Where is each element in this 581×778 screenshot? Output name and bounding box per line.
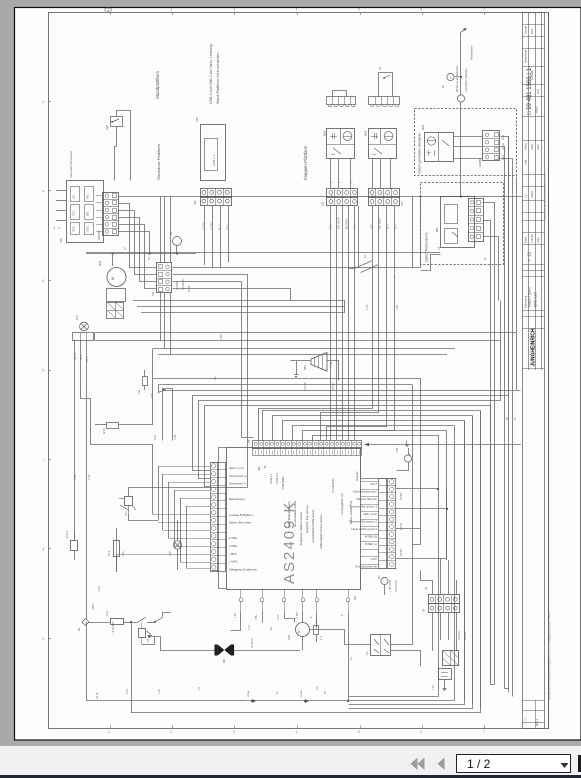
svg-text:X6: X6 <box>422 608 426 612</box>
switch S20 <box>111 117 123 127</box>
svg-text:4: 4 <box>43 190 45 194</box>
svg-text:Irrtumsvorb. alle Rechte vo: Irrtumsvorb. alle Rechte vorbehalten © J… <box>544 173 547 220</box>
svg-text:Hauptantrieb (GND) sensor-: Hauptantrieb (GND) sensor- <box>311 509 315 543</box>
svg-text:A: A <box>449 77 453 79</box>
relay K1 contacts <box>371 635 391 656</box>
svg-text:4B1: 4B1 <box>303 365 307 370</box>
svg-text:3: 3 <box>233 730 235 734</box>
svg-text:WH 16/BN: WH 16/BN <box>379 217 382 229</box>
wires from X30 cascade <box>119 196 231 198</box>
svg-text:C51: C51 <box>72 211 76 216</box>
ECU left pin block X1 <box>211 463 219 572</box>
svg-text:9M1: 9M1 <box>421 124 425 130</box>
svg-text:1FB 3: 1FB 3 <box>66 531 69 538</box>
svg-text:CAN-Bus / Optionen: CAN-Bus / Optionen <box>464 68 468 92</box>
wire node B down <box>460 103 462 197</box>
valve PTB 2Y1 <box>125 497 133 506</box>
svg-text:5: 5 <box>43 279 45 283</box>
motor 6M1 <box>107 268 126 287</box>
svg-text:8B1: 8B1 <box>435 227 439 232</box>
svg-text:2 BU: 2 BU <box>255 614 258 620</box>
svg-text:A51: A51 <box>86 194 90 199</box>
wire X6 top <box>432 580 434 595</box>
svg-text:Blatt: Blatt <box>530 29 534 34</box>
lamp 2W <box>173 541 181 549</box>
svg-text:Datum: Datum <box>525 143 528 150</box>
svg-text:0.5 GY: 0.5 GY <box>400 522 403 530</box>
fan relay block 9M3 <box>369 129 397 159</box>
terminal strip X35 <box>201 189 232 198</box>
svg-text:F1.0: F1.0 <box>106 610 109 616</box>
svg-text:0.5 RD: 0.5 RD <box>211 222 214 230</box>
svg-text:0.5 GN: 0.5 GN <box>304 382 307 390</box>
svg-text:7615: 7615 <box>86 226 90 232</box>
svg-text:8: 8 <box>43 548 45 552</box>
rectifier DR black <box>215 645 218 656</box>
svg-text:Drehz. antrieb. Poti: Drehz. antrieb. Poti <box>349 501 353 524</box>
svg-text:F1.3: F1.3 <box>107 550 111 556</box>
svg-text:50a: 50a <box>354 595 357 600</box>
svg-text:Fahrtrichtung vorw.: Fahrtrichtung vorw. <box>353 490 377 494</box>
connector X16 4-pin <box>483 131 500 161</box>
svg-text:4: 4 <box>296 8 298 12</box>
svg-text:6: 6 <box>421 730 423 734</box>
svg-text:MP: MP <box>378 575 381 579</box>
svg-text:16 sw: 16 sw <box>300 690 303 697</box>
svg-text:- MFG: - MFG <box>229 552 237 556</box>
svg-text:Totmann Sitz-sensor 1: Totmann Sitz-sensor 1 <box>349 505 377 509</box>
svg-text:KB 0.5: KB 0.5 <box>74 352 77 360</box>
svg-text:Name: Name <box>531 143 534 150</box>
svg-text:Weiter zu Rückleuchte: Weiter zu Rückleuchte <box>455 66 459 92</box>
svg-text:Option gemeldete Geblaese: Option gemeldete Geblaese <box>418 133 422 174</box>
svg-text:GN 1: GN 1 <box>371 223 374 229</box>
svg-text:S1: S1 <box>146 638 150 642</box>
svg-text:B2: B2 <box>169 231 173 235</box>
wires bottom pins <box>231 611 241 631</box>
svg-text:2 W: 2 W <box>168 551 172 556</box>
svg-text:Option Rückenlehne: Option Rückenlehne <box>425 232 429 262</box>
svg-text:M'SEN_A: M'SEN_A <box>365 542 377 546</box>
wires relay K1 <box>391 545 413 645</box>
svg-text:Steckdose Plattform: Steckdose Plattform <box>156 144 161 180</box>
fuse F1.3 <box>114 541 120 557</box>
svg-text:M'SEN_B: M'SEN_B <box>365 535 377 539</box>
svg-text:X13: X13 <box>400 201 404 206</box>
svg-text:B51: B51 <box>86 211 90 216</box>
svg-text:Hauptantr. Imp. sensor+: Hauptantr. Imp. sensor+ <box>305 504 309 533</box>
svg-text:S20: S20 <box>105 125 109 130</box>
svg-text:X11: X11 <box>321 201 325 206</box>
svg-text:10A: 10A <box>121 551 125 556</box>
svg-text:+PGT: +PGT <box>370 482 378 486</box>
svg-text:+15V: +15V <box>370 557 377 561</box>
terminal strip 3-cell <box>73 333 94 341</box>
svg-text:rt 16/BK: rt 16/BK <box>176 281 179 290</box>
svg-text:Anzeige B (Batt)ron: Anzeige B (Batt)ron <box>229 513 254 517</box>
wire bus y300-320 <box>133 300 345 302</box>
wire main bus y196 <box>231 196 327 198</box>
svg-text:5: 5 <box>358 730 360 734</box>
svg-text:GY 1: GY 1 <box>86 356 89 362</box>
wires X41 down <box>160 293 162 341</box>
svg-text:Ausdruck nur zur Information!: Ausdruck nur zur Information! Erzeugt am… <box>549 612 552 700</box>
svg-text:Klappen-Plattform: Klappen-Plattform <box>303 145 308 180</box>
wire stair bus above IC <box>163 391 521 441</box>
indicator B2 <box>173 237 182 246</box>
wires into left pins <box>158 466 210 468</box>
svg-text:Beleuchtung: Beleuchtung <box>229 497 245 501</box>
svg-text:A30: A30 <box>59 238 63 243</box>
svg-text:Setzer (Dis) swert: Setzer (Dis) swert <box>229 521 251 525</box>
svg-text:Scheinwerf (-): Scheinwerf (-) <box>229 482 246 486</box>
svg-text:1 BK: 1 BK <box>74 474 77 480</box>
brake resistor R1 <box>439 669 452 680</box>
svg-text:2:16: 2:16 <box>126 689 129 694</box>
nested corners bottom right <box>349 700 455 702</box>
svg-text:Gabel-Tg/von: Gabel-Tg/von <box>528 287 532 307</box>
option box gemeldete Geblaese <box>415 109 517 176</box>
svg-text:1 F1: 1 F1 <box>431 684 435 690</box>
horn 4B1 <box>311 353 327 372</box>
svg-text:Potentiometer fer: Potentiometer fer <box>356 565 378 569</box>
svg-text:Hupe (Schl) sensor1: Hupe (Schl) sensor1 <box>352 527 378 531</box>
svg-text:1 GY: 1 GY <box>366 304 369 310</box>
wire option2 left <box>421 255 441 271</box>
connector header X21 <box>327 97 356 105</box>
svg-text:Vernetzte Bordnetze: Vernetzte Bordnetze <box>69 150 73 178</box>
svg-text:Blatt 1: Blatt 1 <box>535 105 539 113</box>
svg-text:DR: DR <box>222 659 226 663</box>
svg-text:X35: X35 <box>193 200 197 205</box>
svg-text:Magnet. Bremse: Magnet. Bremse <box>356 497 377 501</box>
svg-text:sw 16 11: sw 16 11 <box>251 638 254 648</box>
svg-text:+ 1 / 1-: + 1 / 1- <box>524 717 528 726</box>
svg-text:K1: K1 <box>365 651 369 655</box>
svg-text:3: 3 <box>43 100 45 104</box>
wire bus y253 <box>86 253 196 255</box>
svg-text:Rückleuchte: Rückleuchte <box>470 45 474 60</box>
svg-text:Bearb: Bearb <box>525 236 528 243</box>
svg-text:Totmann Sitz-sensor 2: Totmann Sitz-sensor 2 <box>349 520 377 524</box>
ECU right pin block X2 <box>379 479 387 569</box>
wires PTB <box>129 488 248 497</box>
capacitor C1 <box>314 626 319 635</box>
svg-text:1 GBS: 1 GBS <box>229 536 237 540</box>
svg-text:1: 1 <box>108 730 110 734</box>
svg-text:0.5 YE: 0.5 YE <box>332 382 335 390</box>
svg-text:CAN-H 1: CAN-H 1 <box>275 472 279 483</box>
arrow junction T1 <box>159 385 167 393</box>
svg-text:4 WH: 4 WH <box>296 612 299 618</box>
wire bottom left <box>89 622 110 624</box>
svg-text:Sollwertgeber (5,0V) sensor+: Sollwertgeber (5,0V) sensor+ <box>319 513 323 548</box>
svg-text:+15V COM: +15V COM <box>389 580 392 592</box>
svg-text:LED (+) con: LED (+) con <box>229 466 244 470</box>
svg-text:150/ 68: 150/ 68 <box>530 234 534 243</box>
svg-text:JUNGHEINRICH: JUNGHEINRICH <box>531 328 537 366</box>
svg-text:✓ 12: ✓ 12 <box>527 251 532 262</box>
svg-text:7: 7 <box>483 8 485 12</box>
svg-text:GY 1: GY 1 <box>354 223 357 229</box>
svg-text:BN 16/BU: BN 16/BU <box>346 218 349 229</box>
svg-text:9: 9 <box>43 637 45 641</box>
switch S1 contacts <box>131 622 138 624</box>
svg-text:3: 3 <box>233 8 235 12</box>
svg-text:+ MFG: + MFG <box>229 560 238 564</box>
connector header X22 with switch <box>369 97 400 105</box>
svg-text:Gepr: Gepr <box>537 237 540 243</box>
svg-text:X16/B8: X16/B8 <box>478 158 482 167</box>
svg-text:2: 2 <box>171 730 173 734</box>
wire bus y252 <box>86 252 440 254</box>
svg-text:Anzahl: Anzahl <box>524 26 528 34</box>
wires horn <box>303 360 311 362</box>
svg-text:Blatt 1: Blatt 1 <box>535 718 539 726</box>
ECU bottom pins <box>240 589 242 598</box>
component W2k <box>107 423 119 429</box>
svg-text:0.5 GY/RD: 0.5 GY/RD <box>395 580 398 592</box>
contact block X7 <box>443 651 459 666</box>
svg-text:Stand-Plattform nicht vorhande: Stand-Plattform nicht vorhanden <box>216 52 220 104</box>
svg-text:6: 6 <box>421 8 423 12</box>
svg-text:1 C: 1 C <box>320 636 323 640</box>
svg-text:9M3: 9M3 <box>364 130 368 136</box>
svg-text:1 / 2: 1 / 2 <box>467 757 491 771</box>
svg-text:X41: X41 <box>151 291 155 296</box>
svg-text:Temperatur- Widerst. sensor: Temperatur- Widerst. sensor <box>299 512 303 546</box>
svg-text:rt/ws: rt/ws <box>502 134 505 140</box>
svg-text:M: M <box>111 277 115 280</box>
svg-text:0.5 BK: 0.5 BK <box>203 222 206 230</box>
resistor RV <box>143 377 148 386</box>
wires X11 X13 down <box>330 206 332 440</box>
svg-text:+5 CAN/TTL: +5 CAN/TTL <box>331 477 335 493</box>
svg-text:USB 1 und USB 2 bei Vario- Len: USB 1 und USB 2 bei Vario- Lenkung <box>209 44 213 104</box>
wires right pins out <box>396 488 438 490</box>
svg-text:GY 1: GY 1 <box>227 224 230 230</box>
svg-text:1 BN: 1 BN <box>174 434 177 440</box>
svg-text:Norm: Norm <box>537 144 540 150</box>
svg-text:1 BK: 1 BK <box>234 612 237 618</box>
svg-text:Bremse: Bremse <box>355 471 359 481</box>
svg-text:Bearb/Repr: Bearb/Repr <box>524 50 528 63</box>
wire 2M1 to relay <box>310 630 371 645</box>
node circle A <box>447 73 454 80</box>
wire bus y333-362 <box>95 177 517 333</box>
ECU right pin stubs <box>360 481 379 483</box>
svg-text:T-ANT/RBT: T-ANT/RBT <box>281 476 285 490</box>
svg-text:7: 7 <box>483 730 485 734</box>
svg-text:1 WH: 1 WH <box>220 334 223 340</box>
svg-text:+BV: +BV <box>257 466 261 471</box>
wires X17 exits <box>483 203 495 685</box>
diagonal merge <box>349 261 373 269</box>
wires X6 down <box>432 612 434 651</box>
svg-text:B-: B- <box>59 227 61 229</box>
svg-text:6: 6 <box>43 369 45 373</box>
svg-text:CAN-L 1: CAN-L 1 <box>269 473 273 484</box>
wires 9M3 to X13 <box>372 158 374 188</box>
svg-text:16 sw: 16 sw <box>247 690 250 697</box>
svg-text:2M1: 2M1 <box>287 634 291 640</box>
svg-text:1:16: 1:16 <box>158 689 161 694</box>
bus junction dots <box>331 196 333 198</box>
svg-text:2: 2 <box>171 8 173 12</box>
svg-text:BL 1: BL 1 <box>219 224 222 230</box>
node circle B <box>457 95 464 102</box>
svg-text:W 2k: W 2k <box>103 428 106 434</box>
USB module U1 <box>201 125 226 181</box>
wire transistor arrow <box>147 631 161 637</box>
svg-text:T 6.3A 250V: T 6.3A 250V <box>112 621 115 634</box>
node M1 diamond <box>82 619 89 626</box>
svg-text:1 RD: 1 RD <box>88 474 91 480</box>
svg-text:M: M <box>297 630 301 633</box>
wires X35 down <box>204 205 206 265</box>
wires X41 up <box>160 197 162 264</box>
connector X41 4-pin <box>157 263 172 293</box>
svg-text:K3B S: K3B S <box>92 603 95 610</box>
wire switch to bus <box>117 111 131 181</box>
terminal strip X11 <box>327 189 358 198</box>
svg-text:ERC 120: ERC 120 <box>534 292 538 307</box>
svg-text:B 16h: B 16h <box>188 285 191 292</box>
svg-text:3 GY: 3 GY <box>277 614 280 620</box>
valve unit 8B1 <box>441 197 475 248</box>
wire left stub <box>91 431 153 461</box>
svg-text:KB 1: KB 1 <box>80 354 83 360</box>
fan unit 9M1 <box>425 133 454 162</box>
svg-text:Sic-Gemeldete erdfrei: Sic-Gemeldete erdfrei <box>293 501 297 528</box>
svg-text:2Y1: 2Y1 <box>124 511 128 516</box>
svg-text:Zust: Zust <box>537 89 540 94</box>
svg-text:WH 16/GN: WH 16/GN <box>338 217 341 229</box>
mp circle bottom <box>381 577 388 584</box>
fuse F1.0 <box>111 619 124 625</box>
option box Ruebenbehandlung <box>421 183 504 265</box>
svg-text:S2: S2 <box>378 66 382 70</box>
svg-text:Datum: Datum <box>531 191 534 198</box>
emergency button <box>139 629 146 638</box>
wires DR <box>234 650 300 652</box>
svg-text:0.75: 0.75 <box>154 435 157 440</box>
wires X16 exits <box>501 137 509 693</box>
svg-text:M1: M1 <box>77 627 81 631</box>
svg-text:0.75 BK: 0.75 BK <box>464 631 467 640</box>
svg-text:Scheinwerf (+): Scheinwerf (+) <box>229 474 247 478</box>
wire to rear light with arrow <box>461 29 467 95</box>
lamp 4H1 <box>80 322 89 331</box>
svg-text:sw 16: sw 16 <box>96 692 99 699</box>
svg-text:Abfragung Schaltersig: Abfragung Schaltersig <box>229 567 257 571</box>
wires motor down <box>110 301 112 304</box>
svg-text:9M2: 9M2 <box>323 130 327 136</box>
svg-text:Sich.-Widerst. sensor: Sich.-Widerst. sensor <box>287 501 291 527</box>
svg-text:1 Ω: 1 Ω <box>329 362 333 366</box>
wire bus group y267-288 <box>173 197 421 268</box>
svg-text:GY 1: GY 1 <box>395 223 398 229</box>
svg-text:X36: X36 <box>195 117 199 122</box>
ECU A1 body <box>227 448 361 590</box>
control unit A30 Bedienkonsole <box>67 181 104 243</box>
svg-text:1T8: 1T8 <box>150 393 154 398</box>
svg-text:GN 1: GN 1 <box>330 223 333 229</box>
connector X17 5-pin <box>469 199 484 242</box>
ECU corner lines <box>211 448 227 463</box>
svg-text:BN 16/WH: BN 16/WH <box>182 278 185 290</box>
svg-text:0.5 BN: 0.5 BN <box>400 492 403 500</box>
svg-text:5: 5 <box>358 8 360 12</box>
svg-text:An-Speigelstr. mA: An-Speigelstr. mA <box>340 493 344 515</box>
svg-text:2 GBS: 2 GBS <box>229 544 237 548</box>
svg-text:4H1: 4H1 <box>75 315 79 320</box>
wire arrow into pin row <box>366 444 521 446</box>
svg-text:1 BU: 1 BU <box>396 304 399 310</box>
svg-text:4: 4 <box>296 730 298 734</box>
svg-text:1 B 6: 1 B 6 <box>98 586 101 592</box>
frame border <box>49 13 549 729</box>
right vertical bus <box>438 435 440 692</box>
svg-text:Standplattform: Standplattform <box>155 71 160 99</box>
pump motor 2M1 <box>296 623 310 637</box>
svg-text:B+: B+ <box>263 464 267 468</box>
title block grid <box>528 13 530 370</box>
terminal strip X6 <box>429 595 460 604</box>
terminal strip X13 <box>369 189 400 198</box>
svg-text:0.75 RD: 0.75 RD <box>458 631 461 640</box>
terminal X40 2x2 <box>107 303 124 319</box>
svg-text:9 W: 9 W <box>396 447 399 452</box>
wires 9M2 to X11 <box>330 158 332 188</box>
svg-text:0 V: 0 V <box>316 686 319 690</box>
left pin feeder verticals <box>158 466 160 520</box>
fuse KTB <box>71 541 78 551</box>
wires left col down <box>74 340 76 540</box>
wire main minus rail <box>86 622 88 701</box>
svg-text:USB 2.1: USB 2.1 <box>212 154 216 166</box>
svg-text:6M1: 6M1 <box>98 260 102 266</box>
ground R1 <box>444 680 446 685</box>
svg-text:C6: C6 <box>72 195 76 199</box>
connector X30 6-pin <box>103 193 119 236</box>
svg-text:7: 7 <box>43 458 45 462</box>
fan relay block 9M2 <box>327 129 355 159</box>
svg-text:1R1: 1R1 <box>138 389 141 394</box>
svg-text:1:12: 1:12 <box>248 625 251 630</box>
wires 9M1 to X16 <box>454 136 483 138</box>
svg-text:C502d: C502d <box>530 70 534 80</box>
svg-text:LED (-)con: LED (-)con <box>363 512 377 516</box>
ECU top pin row X4 <box>253 441 362 449</box>
svg-text:0.5 BK: 0.5 BK <box>400 548 403 556</box>
svg-text:X4: X4 <box>247 439 251 443</box>
mp circle top <box>404 455 411 462</box>
svg-text:Gepr: Gepr <box>525 159 528 165</box>
svg-text:BU 1: BU 1 <box>387 223 390 229</box>
svg-text:7619: 7619 <box>72 226 76 232</box>
